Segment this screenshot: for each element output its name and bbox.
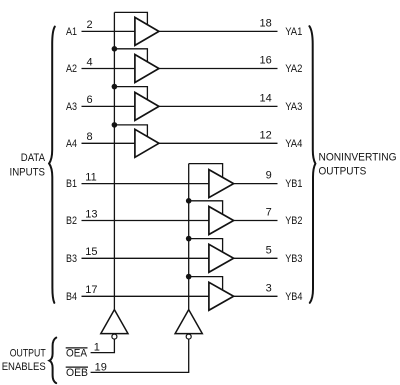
svg-text:A4: A4 [66,138,77,150]
wire: input B3 (pin 15) [82,257,209,259]
svg-text:B2: B2 [66,215,77,227]
svg-text:7: 7 [266,207,272,219]
svg-text:2: 2 [87,19,93,31]
buffer B1 (noninverting three-state) [209,170,234,198]
svg-text:5: 5 [266,244,272,256]
wire: input B1 (pin 11) [82,183,209,185]
svg-text:A2: A2 [66,63,77,75]
wire: output YB4 (pin 3) [234,295,278,297]
svg-text:13: 13 [85,208,97,220]
svg-text:DATA: DATA [21,152,46,164]
svg-text:4: 4 [87,56,93,68]
wire: output YA3 (pin 14) [159,105,278,107]
wire: OEA input (pin 1) [91,339,115,352]
svg-text:B4: B4 [66,291,77,303]
svg-text:B3: B3 [66,253,77,265]
wire: output YA1 (pin 18) [159,30,278,32]
svg-text:1: 1 [94,342,100,354]
svg-text:ENABLES: ENABLES [2,361,46,373]
wire: enable branch to buffer B2 [189,201,223,215]
wire: output YB3 (pin 5) [234,257,278,259]
node: junction dot on A enable line [112,46,118,52]
label OUTPUT ENABLES [2,348,46,373]
svg-text:18: 18 [260,18,272,30]
svg-text:11: 11 [85,171,96,183]
wire: output YB1 (pin 9) [234,183,278,185]
buffer A4 (noninverting three-state) [135,129,159,157]
svg-text:OUTPUT: OUTPUT [10,348,46,360]
wire: input A1 (pin 2) [82,30,135,32]
wire: enable branch to buffer B3 [189,239,223,253]
wire: input B2 (pin 13) [82,220,209,222]
wire: output YB2 (pin 7) [234,220,278,222]
wire: enable branch to buffer A1 [114,12,147,24]
svg-text:15: 15 [85,246,97,258]
svg-text:19: 19 [95,361,107,373]
svg-text:B1: B1 [66,178,77,190]
svg-text:OEA: OEA [66,348,88,360]
node: junction dot on A enable line [112,122,118,128]
wire: enable branch to buffer A3 [114,87,147,100]
svg-text:17: 17 [85,284,97,296]
wire: output YA2 (pin 16) [159,68,278,70]
svg-text:YB3: YB3 [285,253,302,265]
buffer A3 (noninverting three-state) [135,92,159,120]
svg-text:YB4: YB4 [285,291,302,303]
label NONINVERTING OUTPUTS [319,151,397,177]
svg-text:12: 12 [260,129,272,141]
buffer B2 (noninverting three-state) [209,207,234,235]
inverter U-OEA (output enable A) [101,310,128,334]
svg-text:YA4: YA4 [285,138,302,150]
svg-text:YA3: YA3 [285,101,302,113]
wire: input A3 (pin 6) [82,105,135,107]
wire: enable branch to buffer B1 [189,164,223,178]
svg-text:A3: A3 [66,101,77,113]
svg-text:OEB: OEB [66,367,88,379]
svg-text:YA2: YA2 [285,63,302,75]
label DATA INPUTS [10,152,46,178]
svg-text:OUTPUTS: OUTPUTS [319,166,367,178]
buffer B3 (noninverting three-state) [209,244,234,272]
wire: B-group enable vertical line [188,164,190,310]
svg-text:NONINVERTING: NONINVERTING [319,151,397,163]
node: junction dot on A enable line [112,84,118,90]
svg-text:YB2: YB2 [285,215,302,227]
node: junction dot on B enable line [186,236,192,242]
node: junction dot on B enable line [186,198,192,204]
node: junction dot on B enable line [186,274,192,280]
svg-text:A1: A1 [66,26,77,38]
svg-text:16: 16 [260,55,272,67]
right brace (noninverting outputs group) [309,26,315,303]
svg-text:14: 14 [260,93,272,105]
left brace (data inputs group) [49,27,55,303]
wire: input A4 (pin 8) [82,142,135,144]
svg-text:YB1: YB1 [285,178,302,190]
wire: enable branch to buffer B4 [189,277,223,291]
wire: output YA4 (pin 12) [159,142,278,144]
wire: OEB input (pin 19) [91,339,189,372]
wire: A-group enable vertical line [113,12,115,309]
wire: enable branch to buffer A4 [114,125,147,137]
buffer A2 (noninverting three-state) [135,55,159,83]
inverter U-OEB (output enable B) [175,310,202,334]
svg-text:YA1: YA1 [285,26,302,38]
buffer A1 (noninverting three-state) [135,17,159,45]
svg-text:9: 9 [266,170,272,182]
inverter bubble OEA [112,334,117,339]
bottom brace (output enables group) [49,338,56,384]
buffer B4 (noninverting three-state) [209,282,234,310]
wire: input A2 (pin 4) [82,68,135,70]
svg-text:6: 6 [87,94,93,106]
svg-text:3: 3 [266,282,272,294]
svg-text:8: 8 [87,131,93,143]
wire: enable branch to buffer A2 [114,49,147,62]
inverter bubble OEB [186,334,191,339]
svg-text:INPUTS: INPUTS [10,166,46,178]
wire: input B4 (pin 17) [82,295,209,297]
